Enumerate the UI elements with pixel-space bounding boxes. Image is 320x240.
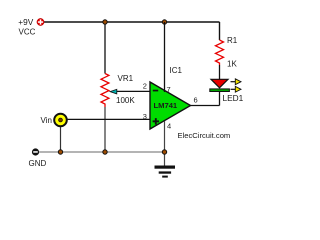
ground symbol — [155, 166, 176, 169]
node junction top VR1 — [103, 20, 107, 24]
wire top rail VCC — [44, 21, 220, 23]
svg-text:LM741: LM741 — [154, 101, 178, 110]
op-amp U1 LM741 — [150, 82, 191, 129]
wire wiper to pin 2 — [117, 90, 151, 92]
connector Vin — [60, 126, 62, 152]
svg-text:2: 2 — [143, 81, 147, 90]
svg-text:6: 6 — [194, 95, 198, 104]
wire VR1 bottom — [104, 107, 106, 152]
terminal GND — [32, 148, 39, 155]
terminal +9V VCC — [37, 18, 44, 25]
svg-text:4: 4 — [167, 121, 171, 130]
svg-text:3: 3 — [143, 112, 147, 121]
potentiometer VR1 — [101, 74, 109, 108]
node junction top pin7 — [162, 20, 166, 24]
svg-text:VCC: VCC — [19, 28, 36, 37]
LED light arrow 2 — [231, 88, 237, 90]
wire ground rail — [39, 151, 165, 153]
LED1 cathode bar — [210, 89, 230, 92]
wire Vin to pin 3 — [66, 118, 150, 120]
svg-text:R1: R1 — [227, 36, 238, 45]
wiper arrow VR1 — [110, 89, 117, 94]
pin 4 wire — [164, 121, 166, 166]
node junction VR1-gnd — [103, 150, 107, 154]
wire VR1 top — [104, 22, 106, 74]
pin 6 output wire — [191, 105, 220, 107]
plus sign pin3 — [153, 120, 159, 122]
LED light arrow 1 — [231, 81, 237, 83]
wire right rail to R1 — [219, 22, 221, 40]
svg-text:IC1: IC1 — [170, 66, 183, 75]
pin 7 wire — [164, 22, 166, 92]
resistor R1 — [216, 40, 224, 65]
minus sign pin2 — [153, 90, 158, 92]
svg-text:LED1: LED1 — [223, 93, 244, 103]
LED1 diode triangle — [211, 79, 228, 88]
svg-text:ElecCircuit.com: ElecCircuit.com — [178, 131, 231, 140]
wire R1 to LED — [219, 65, 221, 80]
node junction pin4-gnd — [162, 150, 166, 154]
svg-text:VR1: VR1 — [118, 74, 134, 83]
svg-text:+9V: +9V — [18, 17, 33, 27]
svg-text:7: 7 — [167, 85, 171, 94]
node junction Vin-gnd — [58, 150, 62, 154]
svg-text:100K: 100K — [116, 96, 135, 105]
svg-text:Vin: Vin — [41, 116, 52, 125]
svg-text:GND: GND — [29, 159, 47, 168]
svg-text:1K: 1K — [227, 60, 237, 69]
